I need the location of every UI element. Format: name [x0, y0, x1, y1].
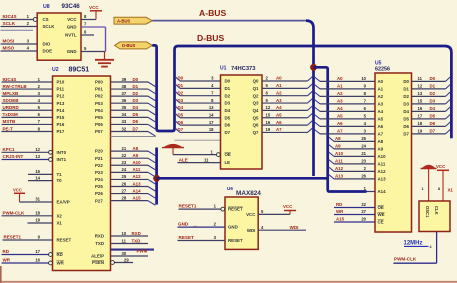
svg-text:D7: D7 [225, 130, 231, 135]
svg-text:A12: A12 [133, 174, 142, 179]
svg-text:U1: U1 [220, 66, 227, 72]
wire U1 pin 5 Q1 net A1 [262, 87, 308, 89]
svg-text:X1: X1 [57, 221, 63, 226]
svg-text:RESET: RESET [228, 238, 243, 243]
svg-text:D5: D5 [133, 112, 139, 117]
svg-text:MISO: MISO [3, 46, 15, 51]
svg-text:RD: RD [336, 202, 342, 207]
svg-text:A1: A1 [378, 87, 384, 92]
wire U2 pin 29 PSEN [111, 262, 134, 264]
wire U6 pin 5 VCC [258, 213, 290, 215]
svg-text:D5: D5 [225, 115, 231, 120]
port A-BUS [114, 17, 152, 24]
svg-text:12: 12 [35, 147, 40, 152]
svg-text:28: 28 [122, 195, 127, 200]
svg-text:RESET1: RESET1 [179, 204, 197, 209]
wire net PWM (thick) [111, 249, 155, 251]
svg-text:D1: D1 [430, 84, 436, 89]
svg-text:19: 19 [35, 218, 40, 223]
svg-text:CLK: CLK [434, 206, 439, 215]
svg-text:A-BUS: A-BUS [199, 8, 226, 18]
bus A branch right/down to RAM low addr [314, 67, 367, 191]
svg-text:A6: A6 [276, 120, 282, 125]
svg-text:RD: RD [3, 249, 10, 254]
svg-text:39: 39 [122, 77, 127, 82]
svg-text:MPLXB: MPLXB [3, 91, 20, 96]
ground (arc symbol) [172, 148, 174, 155]
wire net A5 to U5 pin 5 [315, 115, 321, 119]
svg-text:16: 16 [418, 106, 423, 111]
bus D from port down [152, 45, 451, 138]
svg-text:D3: D3 [225, 101, 231, 106]
svg-text:A14: A14 [133, 188, 142, 193]
svg-text:13: 13 [418, 91, 423, 96]
wire U2 pin 22 P21 net A9 [111, 157, 149, 159]
svg-text:U8: U8 [43, 4, 50, 10]
svg-text:A7: A7 [276, 127, 282, 132]
svg-text:29: 29 [124, 257, 129, 262]
IC U2 89C51 microcontroller [53, 76, 111, 271]
svg-text:WE: WE [378, 212, 385, 217]
svg-text:19: 19 [418, 129, 423, 134]
svg-text:D6: D6 [430, 121, 436, 126]
svg-text:D0: D0 [430, 76, 436, 81]
wire net A12 to U5 pin 2 [329, 167, 334, 171]
svg-text:D2: D2 [403, 94, 409, 99]
wire net MISO to U8 pin 4 [1, 50, 38, 52]
svg-text:11: 11 [122, 238, 127, 243]
svg-text:14: 14 [35, 175, 40, 180]
svg-text:20: 20 [361, 217, 366, 222]
svg-text:27: 27 [361, 209, 366, 214]
U8 pin 7 GND wire [81, 26, 106, 28]
svg-text:26: 26 [122, 181, 127, 186]
bus A8-A15 from MCU P2 [155, 148, 158, 205]
node A8 bus junction [153, 175, 160, 182]
svg-text:11: 11 [418, 76, 423, 81]
wire net KPC1 to U2 pin 12 INT0 [2, 151, 53, 153]
svg-text:WDI: WDI [290, 225, 299, 230]
svg-text:36: 36 [122, 98, 127, 103]
svg-text:MSTB: MSTB [3, 119, 16, 124]
wire U2 pin 27 P26 net A14 [111, 193, 149, 195]
wire net CRJS-INT to U2 pin 13 INT1 [2, 159, 53, 161]
svg-text:P16: P16 [57, 122, 65, 127]
svg-text:VCC: VCC [67, 17, 77, 22]
svg-text:RESET: RESET [228, 207, 243, 212]
svg-text:D2: D2 [178, 90, 184, 95]
svg-text:D-BUS: D-BUS [197, 33, 224, 43]
svg-text:GND: GND [228, 225, 238, 230]
wire net MSTB to U2 pin 7 [2, 123, 53, 125]
svg-text:18: 18 [35, 211, 40, 216]
svg-text:D7: D7 [403, 132, 409, 137]
port D-BUS [115, 42, 153, 49]
wire net GND to U6 pin 2 [178, 226, 226, 228]
wire U1 pin 9 Q3 net A3 [262, 102, 308, 104]
svg-text:A13: A13 [378, 177, 387, 182]
svg-text:U6: U6 [227, 186, 233, 191]
wire net A6 to U5 pin 4 [315, 122, 321, 126]
svg-text:A9: A9 [378, 147, 384, 152]
svg-text:D4: D4 [225, 108, 231, 113]
svg-text:23: 23 [361, 159, 366, 164]
svg-text:19: 19 [266, 127, 271, 132]
svg-text:TXD: TXD [95, 241, 104, 246]
svg-text:22: 22 [361, 202, 366, 207]
wire net RD to U5 pin 22 OE [334, 207, 375, 209]
svg-text:P01: P01 [95, 87, 103, 92]
svg-text:A8: A8 [335, 136, 341, 141]
svg-text:A11: A11 [378, 162, 386, 167]
svg-text:D1: D1 [133, 84, 139, 89]
svg-text:62256: 62256 [375, 67, 390, 73]
svg-text:D2: D2 [225, 93, 231, 98]
svg-text:P03: P03 [95, 101, 103, 106]
svg-text:24: 24 [361, 144, 366, 149]
svg-text:URDRD: URDRD [3, 105, 20, 110]
svg-text:A0: A0 [337, 76, 343, 81]
svg-text:D7: D7 [178, 127, 184, 132]
svg-text:74HC373: 74HC373 [231, 66, 256, 72]
wire U2 pin 32 P07 net D7 [111, 130, 149, 132]
svg-text:P22: P22 [95, 163, 103, 168]
svg-text:PWM-CLK: PWM-CLK [3, 211, 25, 216]
svg-text:15: 15 [35, 169, 40, 174]
svg-text:MOSI: MOSI [3, 39, 15, 44]
svg-text:RESET: RESET [179, 235, 195, 240]
svg-text:17: 17 [35, 249, 40, 254]
ground (earth bars) [104, 52, 106, 60]
svg-text:WDI: WDI [247, 228, 256, 233]
wire U2 pin 11 TXD [111, 243, 149, 245]
wire stub [1, 29, 34, 31]
svg-text:35: 35 [122, 105, 127, 110]
svg-text:93C4S: 93C4S [3, 77, 17, 82]
wire to U2 pin 15 T1 [28, 173, 53, 175]
svg-text:A11: A11 [133, 167, 141, 172]
svg-text:VCC: VCC [13, 188, 22, 193]
wire U1 pin 6 Q2 net A2 [262, 95, 308, 97]
svg-text:A7: A7 [337, 129, 343, 134]
svg-text:RW-CTRLB: RW-CTRLB [3, 84, 28, 89]
IC U1 74HC373 latch [221, 75, 263, 169]
svg-text:34: 34 [122, 112, 127, 117]
wire net D3 to U1 pin 8 [175, 99, 180, 103]
svg-text:A9: A9 [133, 153, 139, 158]
svg-text:P24: P24 [95, 177, 103, 182]
svg-text:WR: WR [57, 261, 65, 266]
svg-text:A8: A8 [133, 146, 139, 151]
svg-text:A5: A5 [337, 114, 343, 119]
svg-text:23: 23 [122, 160, 127, 165]
svg-text:P15: P15 [57, 115, 65, 120]
svg-text:LE: LE [225, 160, 231, 165]
svg-text:Q4: Q4 [253, 108, 259, 113]
svg-text:P11: P11 [57, 87, 65, 92]
svg-text:10: 10 [361, 76, 366, 81]
svg-text:12: 12 [266, 105, 271, 110]
wire net 93C4S to U8 pin 1 [1, 19, 38, 21]
svg-text:D-BUS: D-BUS [122, 43, 135, 48]
svg-text:D5: D5 [430, 114, 436, 119]
svg-text:A5: A5 [378, 117, 384, 122]
wire U1 pin 2 Q0 net A0 [262, 80, 308, 82]
wire net RD to U2 pin 17 [2, 254, 53, 256]
wire U5 pin 19 net D7 to D bus [412, 133, 446, 135]
svg-text:22: 22 [122, 153, 127, 158]
svg-text:P23: P23 [95, 170, 103, 175]
svg-text:A12: A12 [335, 166, 344, 171]
svg-text:18: 18 [418, 121, 423, 126]
svg-text:X2: X2 [57, 213, 63, 218]
svg-text:25: 25 [122, 174, 127, 179]
wire (faint) [175, 139, 221, 141]
wire net D1 to U1 pin 4 [175, 84, 180, 88]
wire (violet vertical) [105, 27, 107, 52]
svg-text:A5: A5 [276, 112, 282, 117]
wire net MPLXB to U2 pin 3 [2, 95, 53, 97]
svg-text:D2: D2 [133, 91, 139, 96]
svg-text:D3: D3 [430, 99, 436, 104]
wire net RW-CTRLB to U2 pin 2 [2, 88, 53, 90]
wire U2 pin 25 P24 net A12 [111, 178, 149, 180]
svg-text:A11: A11 [335, 159, 343, 164]
svg-text:93C46: 93C46 [62, 3, 81, 10]
svg-text:A8: A8 [378, 139, 384, 144]
U8 pin 5 GND wire [81, 51, 106, 53]
oscillator X1 [419, 201, 450, 232]
svg-text:A9: A9 [335, 144, 341, 149]
wire net SDOEB to U2 pin 4 [2, 102, 53, 104]
svg-text:Q0: Q0 [253, 79, 259, 84]
svg-text:37: 37 [122, 91, 127, 96]
svg-text:21: 21 [361, 151, 366, 156]
wire net A8 to U5 pin 25 [329, 137, 334, 141]
svg-text:D6: D6 [178, 120, 184, 125]
svg-text:D5: D5 [178, 112, 184, 117]
svg-text:D3: D3 [403, 102, 409, 107]
wire U2 pin 26 P25 net A13 [111, 186, 149, 188]
svg-text:D3: D3 [178, 98, 184, 103]
wire net D4 to U1 pin 13 [175, 106, 180, 110]
svg-text:30: 30 [122, 251, 127, 256]
IC U5 62256 SRAM [375, 73, 412, 232]
svg-text:D4: D4 [403, 109, 409, 114]
wire U2 pin 37 P02 net D2 [111, 95, 149, 97]
wire net ALE to U1 pin 11 LE [178, 162, 221, 164]
svg-text:89C51: 89C51 [69, 67, 90, 74]
svg-text:27: 27 [122, 188, 127, 193]
svg-text:D6: D6 [225, 123, 231, 128]
svg-text:P20: P20 [95, 149, 103, 154]
svg-text:INT0: INT0 [57, 150, 67, 155]
wire net A13 to U5 pin 26 [329, 175, 334, 179]
svg-text:Q1: Q1 [253, 86, 259, 91]
svg-text:26: 26 [361, 174, 366, 179]
svg-text:TxDSM: TxDSM [3, 112, 19, 117]
svg-text:93C4S: 93C4S [3, 14, 17, 19]
svg-text:PSEN: PSEN [92, 260, 104, 265]
wire U2 pin 36 P03 net D3 [111, 102, 149, 104]
svg-text:D4: D4 [178, 105, 184, 110]
svg-text:P17: P17 [57, 129, 65, 134]
wire net D6 to U1 pin 17 [175, 121, 180, 125]
wire net WR to U2 pin 16 [2, 262, 53, 264]
svg-text:14: 14 [209, 112, 214, 117]
wire U2 pin 21 P20 net A8 [111, 150, 149, 152]
svg-text:P06: P06 [95, 122, 103, 127]
bus A8-A15 horizontal to RAM [157, 177, 328, 180]
wire net RESET to U6 pin 3 [178, 240, 226, 242]
svg-text:Q3: Q3 [253, 101, 259, 106]
svg-text:16: 16 [266, 120, 271, 125]
sheet border [0, 281, 457, 283]
svg-text:A2: A2 [337, 91, 343, 96]
wire net 93C4S to U2 pin 1 [2, 81, 53, 83]
svg-text:24: 24 [122, 167, 127, 172]
wire U2 pin 28 P27 net A15 [111, 200, 149, 202]
svg-text:D4: D4 [430, 106, 436, 111]
wire U2 pin 35 P04 net D4 [111, 109, 149, 111]
IC U8 93C46 serial EEPROM [37, 13, 81, 60]
svg-text:D7: D7 [430, 129, 436, 134]
svg-text:SCLK: SCLK [43, 24, 56, 29]
svg-text:A4: A4 [276, 105, 282, 110]
wire U2 pin 23 P22 net A10 [111, 164, 149, 166]
svg-text:A10: A10 [335, 151, 344, 156]
wire U2 pin 30 ALE/P [111, 255, 149, 257]
U8 pin 6 stub [81, 34, 94, 36]
svg-text:A2: A2 [276, 90, 282, 95]
wire net A14 to U5 pin 1 [367, 191, 376, 193]
svg-text:CRJS-INT: CRJS-INT [3, 154, 24, 159]
svg-text:GND: GND [67, 25, 77, 30]
svg-text:32: 32 [122, 126, 127, 131]
svg-text:GND: GND [178, 222, 189, 227]
wire net A3 to U5 pin 7 [315, 100, 321, 104]
svg-text:VCC: VCC [436, 164, 446, 169]
svg-text:D1: D1 [178, 83, 184, 88]
wire U5 pin 12 net D1 to D bus [412, 88, 446, 90]
wire U1 pin 16 Q6 net A6 [262, 124, 308, 126]
svg-text:A4: A4 [337, 106, 343, 111]
svg-text:31: 31 [35, 197, 40, 202]
wire net A7 to U5 pin 3 [315, 130, 321, 134]
wire U6 pin 4 WDI net WDI [258, 229, 306, 231]
wire U5 pin 17 net D5 to D bus [412, 118, 446, 120]
svg-text:PWM-CLK: PWM-CLK [394, 257, 417, 262]
svg-text:38: 38 [122, 84, 127, 89]
svg-text:OE: OE [225, 152, 231, 157]
svg-text:P05: P05 [95, 115, 103, 120]
wire A-BUS horizontal [152, 20, 306, 22]
svg-text:A1: A1 [276, 83, 282, 88]
svg-text:PWM: PWM [137, 249, 148, 254]
svg-text:PE-T: PE-T [3, 126, 14, 131]
IC U6 MAX824 supervisor [225, 197, 258, 249]
svg-text:KPC1: KPC1 [3, 147, 16, 152]
wire net A4 to U5 pin 6 [315, 107, 321, 111]
svg-text:12: 12 [418, 84, 423, 89]
svg-text:P25: P25 [95, 184, 103, 189]
svg-text:U2: U2 [52, 67, 59, 73]
svg-text:A3: A3 [337, 99, 343, 104]
wire net D2 to U1 pin 7 [175, 91, 180, 95]
svg-text:17: 17 [209, 120, 214, 125]
wire oscillator output [436, 232, 438, 264]
svg-text:A15: A15 [133, 195, 142, 200]
wire net PE-T to U2 pin 8 [2, 130, 53, 132]
wire (faint) [111, 136, 157, 138]
svg-text:21: 21 [122, 146, 127, 151]
wire U2 pin 33 P06 net D6 [111, 123, 149, 125]
wire net WR to U5 pin 27 WE [334, 214, 375, 216]
wire to U2 pin 19 X1 [28, 222, 53, 224]
node A-bus junction [310, 64, 317, 71]
svg-text:16: 16 [35, 258, 40, 263]
svg-text:A6: A6 [378, 124, 384, 129]
wire net URDRD to U2 pin 5 [2, 109, 53, 111]
svg-text:D5: D5 [403, 117, 409, 122]
svg-text:SCLK: SCLK [3, 21, 16, 26]
wire U1 pin 15 Q5 net A5 [262, 117, 308, 119]
wire net MOSI to U8 pin 3 [1, 43, 38, 45]
wire net A15 to U5 pin 20 CE [334, 221, 375, 223]
wire net A9 to U5 pin 24 [329, 145, 334, 149]
svg-text:P26: P26 [95, 191, 103, 196]
svg-text:A0: A0 [276, 76, 282, 81]
svg-text:VCC: VCC [89, 5, 99, 10]
svg-text:18: 18 [209, 127, 214, 132]
svg-text:D6: D6 [403, 124, 409, 129]
svg-text:A15: A15 [336, 217, 345, 222]
svg-text:Q5: Q5 [253, 115, 259, 120]
svg-text:A4: A4 [378, 109, 384, 114]
svg-text:P13: P13 [57, 101, 65, 106]
svg-text:1: 1 [422, 187, 424, 191]
svg-text:SDOEB: SDOEB [3, 98, 20, 103]
svg-text:P21: P21 [95, 156, 103, 161]
wire net RESET1 to U2 pin 9 [3, 239, 53, 241]
svg-text:ALE: ALE [179, 157, 188, 162]
svg-text:RESET: RESET [57, 238, 72, 243]
svg-text:D6: D6 [133, 119, 139, 124]
svg-text:RD: RD [57, 252, 63, 257]
svg-text:8: 8 [438, 187, 440, 191]
wire net D0 to U1 pin 3 [175, 77, 180, 81]
svg-text:CE: CE [378, 220, 384, 225]
svg-text:OSC1: OSC1 [425, 206, 430, 218]
svg-text:D0: D0 [403, 79, 409, 84]
svg-text:DOE: DOE [43, 49, 53, 54]
svg-text:A0: A0 [378, 79, 384, 84]
svg-text:EA/VP: EA/VP [57, 200, 70, 205]
svg-text:Q6: Q6 [253, 123, 259, 128]
svg-text:A3: A3 [378, 102, 384, 107]
svg-text:12MHz: 12MHz [404, 241, 423, 247]
svg-text:D0: D0 [133, 77, 139, 82]
svg-text:A12: A12 [378, 169, 387, 174]
wire U5 pin 11 net D0 to D bus [412, 80, 446, 82]
wire net A11 to U5 pin 23 [329, 160, 334, 164]
svg-text:A-BUS: A-BUS [117, 18, 130, 23]
svg-text:D4: D4 [133, 105, 139, 110]
svg-text:13: 13 [35, 154, 40, 159]
wire U2 pin 38 P01 net D1 [111, 88, 149, 90]
svg-text:D0: D0 [225, 79, 231, 84]
svg-text:D2: D2 [430, 91, 436, 96]
